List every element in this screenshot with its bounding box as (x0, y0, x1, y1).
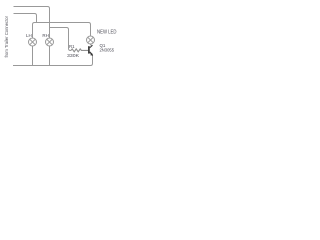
svg-text:from Trailer Connector: from Trailer Connector (4, 15, 9, 57)
svg-text:NEW LED: NEW LED (97, 29, 117, 35)
svg-text:330K: 330K (67, 53, 80, 58)
wire lamp LH bottom (32, 46, 34, 66)
wire rail1 top (14, 7, 50, 39)
svg-text:LH: LH (26, 33, 32, 38)
wire LED to collector (91, 44, 93, 45)
svg-text:R1: R1 (69, 44, 75, 49)
transistor Q1 emitter arrowhead (90, 53, 93, 56)
wire ground bus (13, 55, 93, 66)
lamp LH (29, 38, 37, 46)
wire mid horizontal to LED, LH lamp drop (33, 23, 91, 39)
svg-text:2N3055: 2N3055 (100, 47, 115, 52)
transistor Q1 (89, 45, 93, 55)
LED lamp (87, 36, 95, 44)
wire branch to resistor (50, 28, 72, 51)
wire rail2 (14, 14, 37, 23)
svg-text:RH: RH (42, 33, 49, 38)
wire lamp RH bottom (49, 46, 51, 66)
lamp RH (46, 38, 54, 46)
resistor R1 (71, 49, 88, 52)
